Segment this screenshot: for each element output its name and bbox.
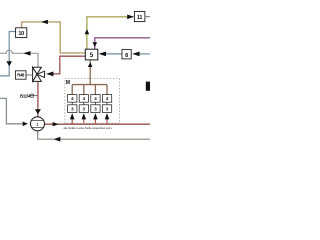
arrow left into box8 — [132, 52, 139, 57]
wire gray return: right edge to circle1 bottom — [38, 131, 150, 140]
arrow left on gray wire — [23, 51, 30, 56]
wire teal from box10 left, down, exits left edge — [0, 32, 16, 76]
wire teal right edge to box8 — [140, 53, 150, 55]
box 10 — [16, 28, 27, 38]
arrow left into box5 — [99, 52, 106, 57]
box R48 — [15, 71, 26, 79]
svg-text:1: 1 — [36, 122, 39, 128]
wire maroon bottom: circle1 right to right edge — [45, 123, 151, 125]
arrow right into circle1 — [23, 122, 28, 127]
svg-text:M: M — [66, 80, 70, 86]
arrow right on maroon bottom wire — [53, 122, 59, 126]
4-boxes row — [68, 95, 112, 103]
3-boxes row — [68, 105, 112, 113]
R48 connector line — [26, 74, 33, 76]
wire brown: box5 bottom down to bar — [89, 60, 91, 85]
arrow left on tan wire — [41, 20, 48, 24]
red stems from maroon line up to grid — [72, 119, 107, 124]
box11 right stub — [145, 16, 150, 18]
arrow right into box11 — [127, 15, 134, 20]
svg-text:5: 5 — [90, 52, 94, 59]
dashed box M — [65, 79, 120, 124]
arrow left on gray return — [54, 137, 61, 142]
box 8 — [122, 49, 131, 59]
svg-text:alle Ventile in einer Reihe an: alle Ventile in einer Reihe angeordnet u… — [64, 127, 113, 130]
arrows up into 3-boxes — [70, 113, 75, 119]
svg-text:11: 11 — [137, 15, 143, 21]
wire tan: box10 top, up, right, down, into box5 left — [22, 22, 86, 53]
black bar at right edge — [146, 82, 150, 91]
svg-text:B11/4: B11/4 — [20, 93, 31, 98]
wire gray: left edge, down, into circle1 left — [0, 98, 22, 123]
arrow down on teal wire — [6, 61, 12, 66]
svg-text:R48: R48 — [17, 73, 25, 78]
wire olive: box5 top to box11 — [87, 17, 134, 49]
arrow left into valve — [46, 72, 53, 77]
arrow up into box5 — [88, 62, 93, 67]
brown drops into 4-boxes — [72, 85, 107, 95]
wire gray from left edge to valve top with hop over teal — [0, 50, 38, 67]
valve 4-way — [33, 67, 45, 81]
arrow up on olive wire — [85, 29, 90, 34]
connectors 4-box to 3-box — [72, 102, 107, 105]
wire maroon: box5 left, left, down, into valve right — [53, 56, 85, 74]
svg-text:10: 10 — [18, 31, 24, 37]
wire teal box8 to box5 — [106, 53, 122, 55]
circle 1 fan — [31, 117, 45, 131]
wire purple: right edge into box5 top — [95, 38, 150, 49]
svg-text:8: 8 — [125, 53, 128, 59]
sensor connector circle — [30, 94, 33, 97]
box 11 — [134, 12, 145, 22]
wire maroon: valve bottom down to circle1 — [37, 81, 39, 118]
arrow down into box5 — [93, 42, 98, 47]
brown distribution bar — [72, 84, 107, 86]
box 5 — [85, 49, 98, 60]
arrow down into circle1 — [35, 109, 41, 114]
